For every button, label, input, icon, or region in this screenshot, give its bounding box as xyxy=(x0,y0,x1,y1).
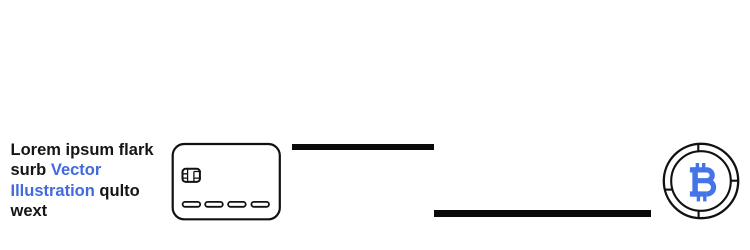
chip internal lines xyxy=(182,169,201,182)
chip outline xyxy=(183,169,200,182)
bitcoin B: top bar and upper bulge xyxy=(690,170,712,181)
inner coin circle xyxy=(671,151,731,211)
coin edge tick right xyxy=(731,180,738,182)
pill 3 xyxy=(228,202,246,207)
coin edge tick top xyxy=(697,144,699,151)
bitcoin B: bottom bar xyxy=(690,191,707,196)
bitcoin B: bottom prongs xyxy=(697,196,700,201)
bitcoin B: top prongs xyxy=(696,163,699,168)
outer coin circle xyxy=(664,144,738,218)
coin edge tick bottom xyxy=(698,211,700,218)
pill 2 xyxy=(205,202,223,207)
top black bar xyxy=(292,144,434,151)
pill 1 xyxy=(183,202,201,207)
bottom black bar xyxy=(434,210,652,217)
coin edge tick left xyxy=(665,189,673,191)
pill 4 xyxy=(251,202,269,207)
card body outline xyxy=(173,144,280,219)
credit card icon xyxy=(170,140,285,224)
bitcoin B: middle bar and lower bulge xyxy=(693,181,714,194)
bitcoin coin icon xyxy=(659,139,750,230)
bitcoin B: stem xyxy=(692,167,698,196)
headline text block xyxy=(11,140,171,221)
